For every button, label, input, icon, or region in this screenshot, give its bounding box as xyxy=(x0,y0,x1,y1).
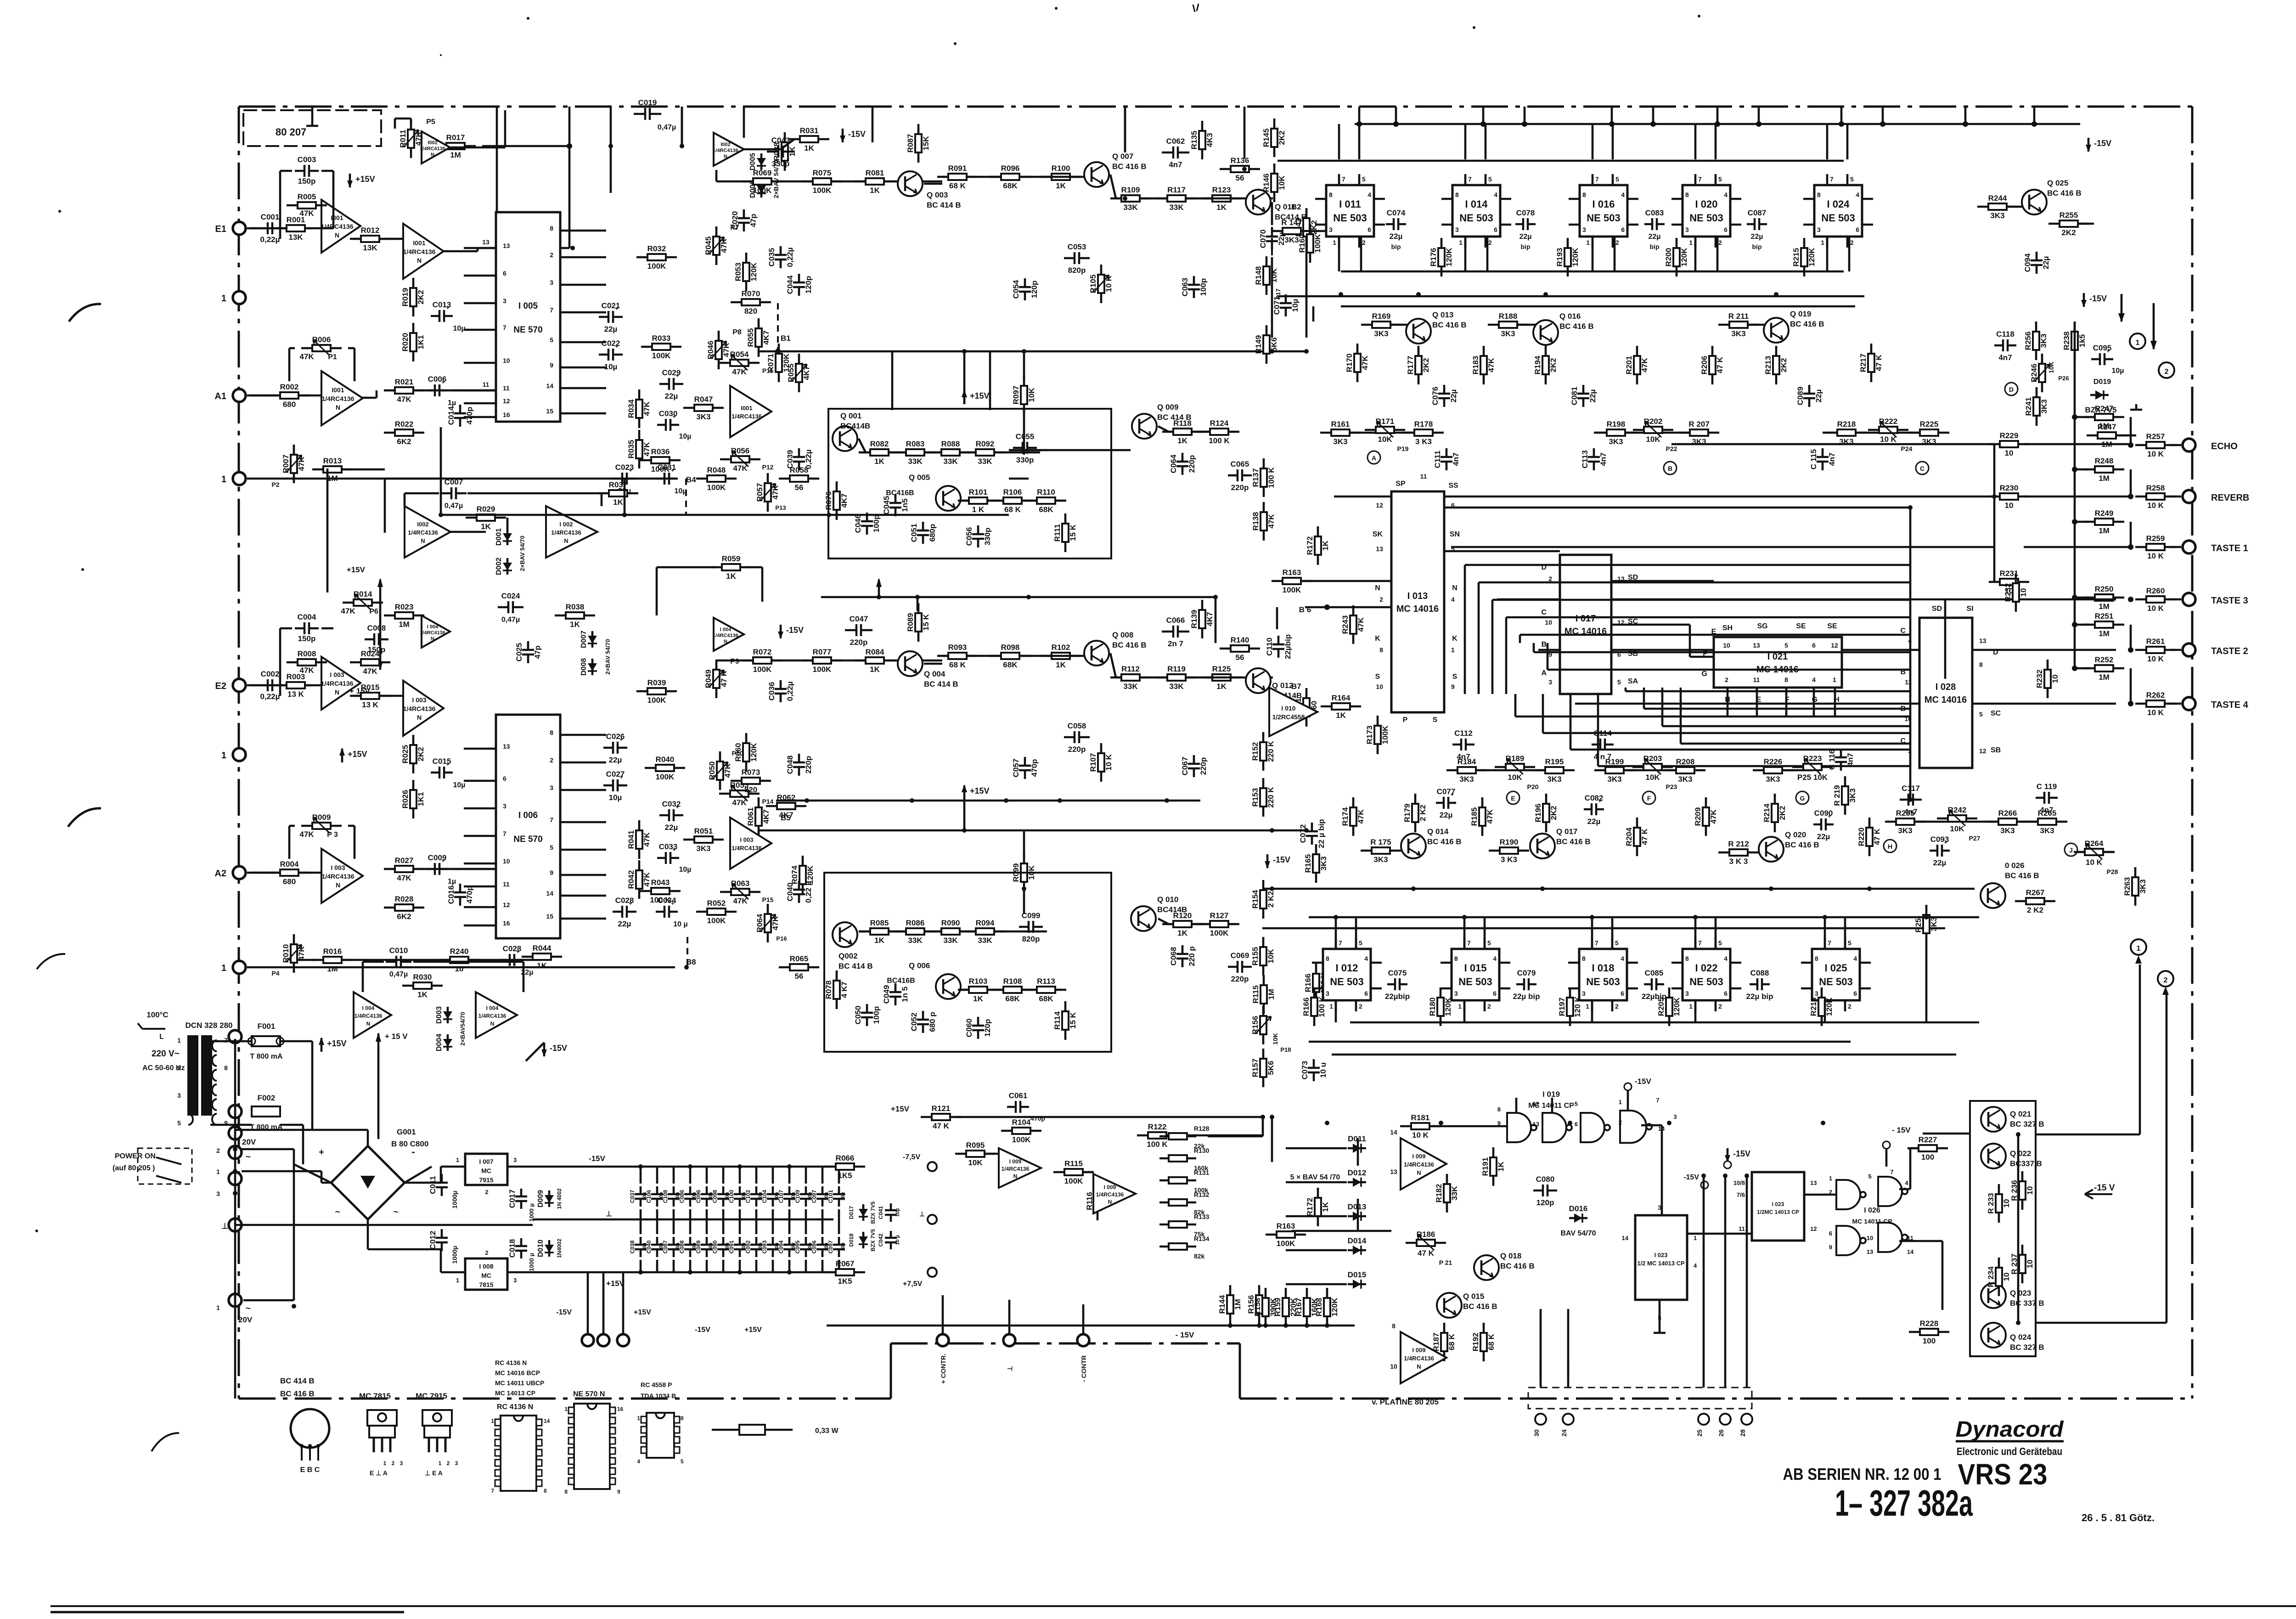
svg-text:R076: R076 xyxy=(824,491,833,510)
svg-text:BC 416 B: BC 416 B xyxy=(1427,837,1462,846)
svg-text:1: 1 xyxy=(216,1168,220,1175)
svg-text:7915: 7915 xyxy=(479,1176,493,1184)
svg-text:+15V: +15V xyxy=(970,391,990,401)
svg-text:bip: bip xyxy=(1521,243,1531,250)
svg-text:A2: A2 xyxy=(214,869,226,879)
svg-text:R159: R159 xyxy=(1273,1298,1282,1317)
svg-text:100K: 100K xyxy=(656,773,675,781)
svg-text:R025: R025 xyxy=(401,745,410,764)
svg-text:47 K: 47 K xyxy=(1874,354,1883,371)
svg-text:C095: C095 xyxy=(2093,344,2112,352)
svg-text:1: 1 xyxy=(177,1037,181,1044)
svg-text:R090: R090 xyxy=(941,919,960,927)
svg-text:C018: C018 xyxy=(508,1239,517,1258)
svg-text:0,22µ: 0,22µ xyxy=(260,692,280,701)
svg-text:A: A xyxy=(1541,669,1547,677)
svg-text:1/4RC4136: 1/4RC4136 xyxy=(1002,1166,1030,1172)
svg-text:BZX 7V5: BZX 7V5 xyxy=(870,1201,876,1224)
svg-text:1K: 1K xyxy=(973,994,983,1003)
svg-text:10: 10 xyxy=(503,857,510,865)
svg-text:C098: C098 xyxy=(712,1190,718,1203)
svg-text:R267: R267 xyxy=(2026,888,2045,897)
svg-text:3K3: 3K3 xyxy=(1319,856,1328,870)
svg-text:3K3: 3K3 xyxy=(1898,826,1912,835)
svg-text:10 K: 10 K xyxy=(1412,1131,1429,1140)
svg-text:68 K: 68 K xyxy=(949,181,966,190)
svg-text:82k: 82k xyxy=(1194,1252,1205,1260)
svg-text:TASTE 4: TASTE 4 xyxy=(2211,700,2249,710)
svg-text:TASTE 1: TASTE 1 xyxy=(2211,543,2248,553)
svg-text:26: 26 xyxy=(1717,1429,1725,1437)
svg-text:2: 2 xyxy=(1718,1003,1722,1010)
svg-text:R074: R074 xyxy=(790,865,799,884)
svg-text:330p: 330p xyxy=(1016,456,1034,464)
svg-text:4n7: 4n7 xyxy=(1828,452,1836,466)
svg-text:C041: C041 xyxy=(878,1206,884,1219)
svg-text:R043: R043 xyxy=(651,878,670,887)
svg-text:680: 680 xyxy=(283,400,296,409)
svg-text:1/4RC4136: 1/4RC4136 xyxy=(732,413,762,420)
svg-text:C096: C096 xyxy=(811,1240,817,1253)
svg-text:D002: D002 xyxy=(495,558,503,575)
svg-text:4: 4 xyxy=(1494,191,1497,198)
svg-text:3: 3 xyxy=(177,1092,181,1099)
svg-text:R228: R228 xyxy=(1920,1319,1939,1328)
svg-text:3K3: 3K3 xyxy=(2000,826,2015,835)
svg-text:1n 5: 1n 5 xyxy=(900,987,909,1002)
svg-text:3K3: 3K3 xyxy=(1547,775,1561,784)
svg-text:22µ: 22µ xyxy=(1390,232,1403,241)
svg-text:10K: 10K xyxy=(1027,388,1036,402)
svg-text:R040: R040 xyxy=(656,755,675,764)
svg-text:5: 5 xyxy=(1362,175,1366,183)
svg-text:C: C xyxy=(1541,609,1547,616)
svg-text:R085: R085 xyxy=(870,919,889,927)
svg-text:NE 503: NE 503 xyxy=(1459,212,1493,224)
svg-text:C077: C077 xyxy=(1437,787,1456,796)
svg-text:22µ: 22µ xyxy=(1817,832,1830,841)
svg-text:6: 6 xyxy=(1493,990,1497,997)
svg-text:R206: R206 xyxy=(1700,356,1709,375)
svg-text:BC 416 B: BC 416 B xyxy=(280,1389,315,1398)
svg-text:10: 10 xyxy=(1723,642,1730,649)
svg-text:N: N xyxy=(1417,1169,1421,1176)
svg-text:R041: R041 xyxy=(627,830,636,849)
svg-text:10K: 10K xyxy=(1508,773,1522,782)
svg-text:R184: R184 xyxy=(1458,757,1476,766)
svg-text:10K: 10K xyxy=(1645,773,1660,782)
svg-text:1K1: 1K1 xyxy=(416,335,425,349)
svg-text:C086: C086 xyxy=(679,1190,685,1203)
svg-text:8: 8 xyxy=(564,1489,568,1495)
svg-text:100K: 100K xyxy=(707,916,726,925)
svg-text:15K: 15K xyxy=(922,136,930,151)
svg-text:C009: C009 xyxy=(428,853,447,862)
svg-text:C054: C054 xyxy=(1012,280,1020,299)
svg-text:1K: 1K xyxy=(613,498,623,507)
svg-text:N: N xyxy=(724,639,727,644)
svg-text:R217: R217 xyxy=(1859,354,1868,372)
svg-text:N: N xyxy=(417,714,422,721)
svg-text:100K: 100K xyxy=(1381,725,1390,744)
svg-text:3: 3 xyxy=(1582,226,1586,233)
svg-text:I 008: I 008 xyxy=(479,1263,493,1270)
svg-text:2: 2 xyxy=(485,1249,488,1256)
svg-text:C040: C040 xyxy=(786,883,794,902)
svg-text:120p: 120p xyxy=(983,1019,992,1037)
svg-text:3: 3 xyxy=(1454,990,1458,997)
svg-text:C093: C093 xyxy=(761,1240,768,1253)
svg-text:0,22µ: 0,22µ xyxy=(786,248,794,267)
svg-text:470p: 470p xyxy=(1030,1115,1045,1122)
svg-text:Q 001: Q 001 xyxy=(840,412,861,420)
svg-text:Dynacord: Dynacord xyxy=(1956,1417,2065,1442)
svg-text:2K2: 2K2 xyxy=(1422,358,1430,372)
svg-text:C071: C071 xyxy=(1272,296,1281,315)
svg-text:4: 4 xyxy=(1856,191,1859,198)
svg-text:R174: R174 xyxy=(1341,807,1350,826)
svg-text:8: 8 xyxy=(1685,955,1689,962)
svg-text:C048: C048 xyxy=(786,756,794,774)
svg-text:BZX 7V5: BZX 7V5 xyxy=(870,1229,876,1251)
svg-text:3: 3 xyxy=(1673,1113,1677,1120)
svg-text:R022: R022 xyxy=(395,420,414,429)
svg-text:R146: R146 xyxy=(1262,174,1271,192)
svg-text:R 207: R 207 xyxy=(1688,420,1709,429)
svg-text:R114: R114 xyxy=(1053,1011,1062,1030)
svg-text:N: N xyxy=(1013,1173,1018,1179)
svg-text:1K: 1K xyxy=(874,936,884,945)
svg-text:1K: 1K xyxy=(726,572,736,581)
svg-text:P26: P26 xyxy=(2058,375,2069,382)
svg-text:I 021: I 021 xyxy=(1767,652,1788,662)
svg-text:4n7: 4n7 xyxy=(1998,353,2012,362)
svg-text:Q 005: Q 005 xyxy=(909,473,930,482)
svg-text:BC414B: BC414B xyxy=(840,422,870,430)
svg-text:R087: R087 xyxy=(906,134,915,153)
svg-text:BC 416 B: BC 416 B xyxy=(1556,837,1591,846)
svg-text:68K: 68K xyxy=(1003,660,1018,669)
svg-text:10: 10 xyxy=(2005,449,2014,457)
svg-text:SI: SI xyxy=(1966,605,1973,613)
svg-text:BC 416 B: BC 416 B xyxy=(1463,1302,1497,1311)
svg-text:-15V: -15V xyxy=(848,130,866,139)
svg-text:6: 6 xyxy=(503,775,506,782)
svg-text:1K: 1K xyxy=(537,961,547,970)
svg-text:C038: C038 xyxy=(629,1240,636,1253)
svg-text:R039: R039 xyxy=(647,678,666,687)
svg-text:I 003: I 003 xyxy=(412,696,426,704)
svg-text:BC 416 B: BC 416 B xyxy=(1112,641,1147,649)
svg-text:Q 006: Q 006 xyxy=(909,961,930,970)
svg-text:C024: C024 xyxy=(501,592,520,600)
svg-text:C100: C100 xyxy=(728,1190,735,1203)
svg-text:R216: R216 xyxy=(1809,998,1818,1016)
svg-text:MC 14013 CP: MC 14013 CP xyxy=(495,1389,535,1397)
svg-text:68 K: 68 K xyxy=(1004,505,1021,514)
svg-text:R148: R148 xyxy=(1254,266,1263,285)
svg-text:R 147: R 147 xyxy=(1281,218,1302,227)
svg-text:6: 6 xyxy=(1724,990,1728,997)
svg-text:C: C xyxy=(1900,627,1906,635)
svg-text:7: 7 xyxy=(1698,175,1702,183)
svg-text:1K5: 1K5 xyxy=(838,1277,852,1286)
svg-text:680: 680 xyxy=(283,877,296,886)
svg-text:C094: C094 xyxy=(2023,253,2032,272)
svg-text:P27: P27 xyxy=(1969,835,1981,842)
svg-text:68K: 68K xyxy=(1039,505,1053,514)
svg-text:C099: C099 xyxy=(1022,911,1041,920)
svg-text:120K: 120K xyxy=(1330,1297,1339,1316)
svg-text:22µ: 22µ xyxy=(1814,389,1823,403)
svg-text:1µ: 1µ xyxy=(448,878,456,886)
svg-text:C015: C015 xyxy=(433,757,451,766)
svg-text:47K: 47K xyxy=(733,897,748,905)
svg-text:330p: 330p xyxy=(983,528,992,546)
svg-text:+15V: +15V xyxy=(606,1279,625,1288)
svg-text:56: 56 xyxy=(1236,174,1244,182)
svg-text:R071: R071 xyxy=(766,354,775,372)
svg-text:R019: R019 xyxy=(401,288,410,307)
svg-text:P 21: P 21 xyxy=(1439,1259,1452,1266)
svg-text:20V: 20V xyxy=(238,1315,253,1324)
svg-text:Q 015: Q 015 xyxy=(1463,1292,1484,1301)
svg-text:13: 13 xyxy=(503,743,510,750)
svg-text:47K: 47K xyxy=(1486,809,1494,824)
svg-text:C033: C033 xyxy=(659,842,678,851)
svg-text:BC 416 B: BC 416 B xyxy=(2047,189,2082,197)
svg-text:R109: R109 xyxy=(1121,186,1140,194)
svg-text:2 K2: 2 K2 xyxy=(1418,805,1427,821)
svg-text:R227: R227 xyxy=(1919,1135,1937,1144)
svg-text:820p: 820p xyxy=(1068,266,1086,275)
svg-text:13 K: 13 K xyxy=(287,690,304,699)
svg-text:SE: SE xyxy=(1796,622,1806,630)
svg-text:20V: 20V xyxy=(242,1138,256,1146)
svg-text:DCN 328 280: DCN 328 280 xyxy=(185,1021,232,1030)
svg-text:8: 8 xyxy=(550,225,553,232)
svg-text:B7: B7 xyxy=(1291,682,1301,691)
svg-text:5: 5 xyxy=(1718,939,1722,947)
svg-text:1/4RC4136: 1/4RC4136 xyxy=(355,1013,383,1019)
svg-text:I 015: I 015 xyxy=(1464,962,1487,974)
svg-text:R153: R153 xyxy=(1251,788,1260,807)
svg-text:-15V: -15V xyxy=(695,1326,710,1334)
svg-text:BC416B: BC416B xyxy=(886,489,914,497)
svg-text:Q 017: Q 017 xyxy=(1556,827,1577,836)
svg-text:3K3: 3K3 xyxy=(2040,399,2048,413)
svg-text:7: 7 xyxy=(1890,1168,1893,1175)
svg-text:REVERB: REVERB xyxy=(2211,493,2249,503)
svg-text:P18: P18 xyxy=(1280,1046,1291,1053)
svg-text:8: 8 xyxy=(1329,191,1333,198)
svg-text:3: 3 xyxy=(1582,990,1586,997)
svg-text:12: 12 xyxy=(1831,642,1838,649)
svg-text:15: 15 xyxy=(546,407,553,415)
svg-text:R004: R004 xyxy=(280,860,299,869)
svg-text:8: 8 xyxy=(1979,661,1983,668)
svg-text:R165: R165 xyxy=(1304,854,1312,873)
svg-text:⊥: ⊥ xyxy=(1006,1366,1013,1371)
svg-text:R137: R137 xyxy=(1251,468,1260,487)
svg-text:Electronic und Gerätebau: Electronic und Gerätebau xyxy=(1957,1445,2062,1457)
svg-text:1N 4002: 1N 4002 xyxy=(556,1188,563,1209)
svg-text:3K3: 3K3 xyxy=(1374,329,1388,338)
svg-text:14: 14 xyxy=(546,890,553,897)
svg-text:10 K: 10 K xyxy=(2147,604,2164,613)
svg-text:13: 13 xyxy=(1753,642,1760,649)
svg-text:2: 2 xyxy=(447,1460,450,1467)
svg-text:R024: R024 xyxy=(361,649,380,658)
svg-text:C019: C019 xyxy=(638,98,657,107)
svg-text:TASTE 3: TASTE 3 xyxy=(2211,596,2248,606)
svg-text:120K: 120K xyxy=(1672,997,1681,1016)
svg-text:C081: C081 xyxy=(1570,387,1579,406)
svg-text:220 K: 220 K xyxy=(1266,787,1275,808)
svg-text:R023: R023 xyxy=(395,603,414,611)
svg-text:1: 1 xyxy=(2136,339,2140,347)
svg-text:2: 2 xyxy=(1718,239,1722,246)
svg-text:3K3: 3K3 xyxy=(1930,917,1938,931)
svg-text:2×BAV 54/70: 2×BAV 54/70 xyxy=(604,639,611,674)
svg-text:C056: C056 xyxy=(965,527,974,546)
svg-text:D005: D005 xyxy=(749,153,757,170)
svg-text:3K3: 3K3 xyxy=(1990,211,2004,220)
svg-text:-15V: -15V xyxy=(556,1309,572,1316)
svg-text:2: 2 xyxy=(1615,1003,1619,1010)
svg-text:1: 1 xyxy=(216,1304,220,1311)
svg-text:-7,5V: -7,5V xyxy=(903,1153,921,1161)
svg-text:470p: 470p xyxy=(465,407,474,425)
svg-text:1M: 1M xyxy=(327,474,338,483)
svg-text:2K2: 2K2 xyxy=(1779,358,1788,372)
svg-text:BC 414 B: BC 414 B xyxy=(927,201,961,209)
svg-text:NE 503: NE 503 xyxy=(1330,976,1363,987)
svg-text:3K3: 3K3 xyxy=(1766,775,1780,784)
svg-text:B 80 C800: B 80 C800 xyxy=(391,1140,428,1148)
svg-text:7: 7 xyxy=(1830,175,1834,183)
svg-text:1: 1 xyxy=(1694,1235,1697,1241)
svg-text:14: 14 xyxy=(1390,1128,1397,1136)
svg-text:R067: R067 xyxy=(836,1259,855,1268)
svg-text:6: 6 xyxy=(1621,226,1625,233)
svg-text:C104: C104 xyxy=(761,1190,768,1203)
svg-text:22µ: 22µ xyxy=(1587,817,1601,826)
svg-text:TDA 1034 B: TDA 1034 B xyxy=(641,1392,676,1399)
svg-text:R119: R119 xyxy=(1167,665,1186,673)
svg-text:NE 503: NE 503 xyxy=(1458,976,1492,987)
svg-text:R020: R020 xyxy=(401,333,410,352)
svg-text:100K: 100K xyxy=(707,483,726,492)
svg-text:NE 503: NE 503 xyxy=(1689,976,1723,987)
svg-text:+15V: +15V xyxy=(348,750,367,759)
svg-text:1/4RC4136: 1/4RC4136 xyxy=(403,705,436,712)
svg-text:8: 8 xyxy=(1379,646,1383,654)
svg-text:220 V~: 220 V~ xyxy=(152,1049,180,1059)
svg-text:+15V: +15V xyxy=(744,1326,762,1334)
svg-text:30: 30 xyxy=(1533,1429,1540,1437)
svg-text:I001: I001 xyxy=(413,239,425,247)
svg-text:2: 2 xyxy=(1615,239,1619,246)
svg-text:I 014: I 014 xyxy=(1465,198,1488,210)
svg-text:10: 10 xyxy=(2026,1260,2034,1269)
svg-text:R133: R133 xyxy=(1194,1213,1210,1220)
svg-text:100K: 100K xyxy=(753,186,772,195)
svg-text:E ⊥ A: E ⊥ A xyxy=(370,1469,388,1477)
svg-text:2: 2 xyxy=(1848,1003,1851,1010)
svg-text:47K: 47K xyxy=(341,607,355,615)
svg-text:D: D xyxy=(2009,386,2014,393)
svg-text:R124: R124 xyxy=(1210,419,1229,428)
svg-text:I 003: I 003 xyxy=(331,864,345,871)
svg-text:10 µ: 10 µ xyxy=(895,1235,900,1245)
svg-text:120K: 120K xyxy=(1571,248,1580,266)
svg-text:R255: R255 xyxy=(2060,211,2078,220)
svg-text:68 K: 68 K xyxy=(949,660,966,669)
svg-text:C096: C096 xyxy=(695,1190,702,1203)
svg-text:1 K: 1 K xyxy=(972,505,985,514)
svg-text:33K: 33K xyxy=(908,457,923,466)
svg-text:4: 4 xyxy=(1812,676,1816,683)
svg-text:10: 10 xyxy=(2051,675,2060,683)
svg-text:N: N xyxy=(417,257,422,264)
svg-text:5: 5 xyxy=(1575,1100,1578,1107)
svg-text:7: 7 xyxy=(1656,1097,1659,1104)
svg-text:-15V: -15V xyxy=(1683,1173,1699,1181)
svg-text:R002: R002 xyxy=(280,383,299,391)
svg-text:1/4RC4136: 1/4RC4136 xyxy=(420,146,445,152)
svg-text:R198: R198 xyxy=(1607,420,1626,429)
svg-text:3K3: 3K3 xyxy=(1284,236,1299,244)
svg-text:C045: C045 xyxy=(882,496,891,515)
svg-text:NE 570: NE 570 xyxy=(513,835,542,844)
svg-text:7: 7 xyxy=(1828,939,1831,947)
svg-text:22µbip: 22µbip xyxy=(1283,634,1292,659)
svg-text:13: 13 xyxy=(1810,1179,1817,1186)
svg-text:100K: 100K xyxy=(813,186,832,195)
svg-text:I 020: I 020 xyxy=(1695,198,1718,210)
svg-text:10K: 10K xyxy=(1378,435,1392,444)
svg-text:ECHO: ECHO xyxy=(2211,441,2238,451)
svg-text:R188: R188 xyxy=(1499,312,1518,321)
svg-text:NE 570 N: NE 570 N xyxy=(573,1390,605,1398)
svg-text:1M: 1M xyxy=(2099,673,2110,682)
svg-text:SP: SP xyxy=(1396,480,1406,488)
svg-text:1k5: 1k5 xyxy=(2078,334,2087,347)
svg-text:MC 7815: MC 7815 xyxy=(359,1392,391,1400)
svg-text:1K: 1K xyxy=(1497,1161,1505,1171)
svg-text:N: N xyxy=(1452,584,1458,592)
svg-text:+15V: +15V xyxy=(970,786,990,795)
svg-text:R021: R021 xyxy=(395,378,414,386)
svg-text:120K: 120K xyxy=(749,262,758,281)
svg-text:1K: 1K xyxy=(570,620,580,629)
svg-text:R243: R243 xyxy=(1341,615,1350,634)
svg-text:R089: R089 xyxy=(906,613,915,632)
svg-text:10: 10 xyxy=(1376,683,1383,690)
svg-text:3: 3 xyxy=(503,297,506,305)
svg-text:10K: 10K xyxy=(1646,435,1660,444)
svg-text:+15V: +15V xyxy=(327,1039,347,1048)
svg-text:Q 010: Q 010 xyxy=(1157,895,1178,904)
svg-text:+7,5V: +7,5V xyxy=(903,1280,923,1288)
svg-text:C118: C118 xyxy=(1996,330,2015,338)
svg-text:1: 1 xyxy=(221,750,226,761)
svg-text:R183: R183 xyxy=(1471,356,1480,375)
svg-text:C078: C078 xyxy=(1516,209,1535,217)
svg-text:R107: R107 xyxy=(1089,753,1097,772)
svg-text:D008: D008 xyxy=(580,658,588,676)
